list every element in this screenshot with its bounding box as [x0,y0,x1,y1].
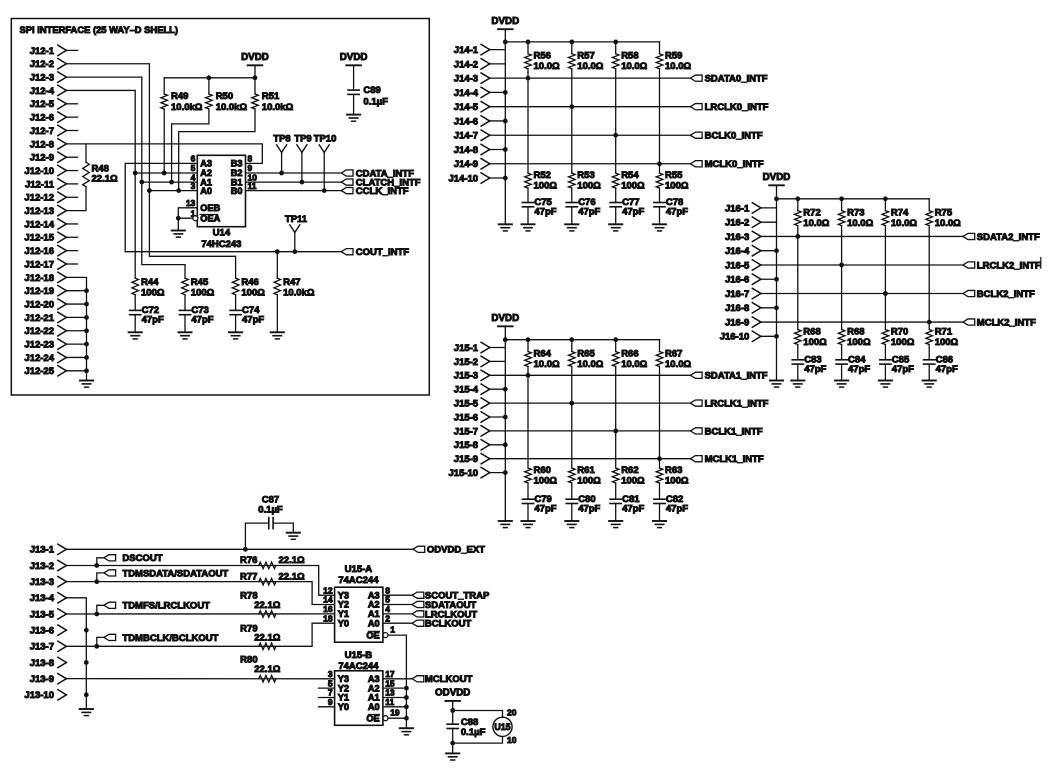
svg-text:R70: R70 [891,326,908,337]
wire signal row SDATA1_INTF [490,374,691,376]
resistor R63 100 ohm [659,459,661,468]
junction J15-4 [503,387,508,392]
junction J13-10 bus [84,692,89,697]
svg-text:DVDD: DVDD [763,172,791,183]
svg-text:U15: U15 [494,722,510,732]
svg-text:DVDD: DVDD [241,52,269,63]
junction rail R58 [613,40,618,45]
svg-text:J13-6: J13-6 [30,626,54,637]
junction R66 signal [613,429,618,434]
svg-text:MCLK0_INTF: MCLK0_INTF [705,159,764,170]
wire signal row MCLK0_INTF [490,163,691,165]
wire U15-A output BCLKOUT [383,622,412,624]
svg-text:J13-3: J13-3 [30,577,54,588]
wire ODVDD rail to U15 pin 20 [453,711,503,718]
flag SDATA1_INTF [690,372,702,378]
svg-text:DVDD: DVDD [340,52,368,63]
capacitor C86 47pF [924,359,935,361]
svg-text:J16-10: J16-10 [720,332,750,343]
svg-text:J14-2: J14-2 [454,59,478,70]
svg-text:1: 1 [390,625,395,635]
resistor R51 10.0k [254,78,256,94]
junction A0 R51 [176,188,181,193]
wire J15-6 stub [490,416,506,418]
svg-text:J16-8: J16-8 [725,303,749,314]
svg-text:47pF: 47pF [534,503,556,514]
junction rail R57 [569,40,574,45]
svg-text:TDMBCLK/BCLKOUT: TDMBCLK/BCLKOUT [122,633,218,644]
junction rail R72 [795,196,800,201]
svg-text:SDATA2_INTF: SDATA2_INTF [977,232,1040,243]
wire J12-4 to A2 and R44 [66,90,135,278]
svg-text:R76: R76 [240,555,257,566]
wire OE-A to U15-B enables [388,635,406,728]
resistor R54 100 ohm [615,135,617,173]
wire U15-B Y2 stub [319,687,335,689]
svg-text:J13-9: J13-9 [30,674,54,685]
wire J12-13 to R48 [66,187,86,211]
resistor R73 10.0 ohm [841,199,843,211]
svg-text:DVDD: DVDD [491,16,519,27]
svg-text:R77: R77 [240,571,257,582]
wire U15 pin 10 to ground rail [453,736,503,743]
svg-text:J13-2: J13-2 [30,561,54,572]
junction J16-6 [774,277,779,282]
resistor R70 100 ohm [884,294,886,330]
resistor R50 10.0k [208,78,210,94]
svg-text:COUT_INTF: COUT_INTF [356,247,410,258]
wire DVDD rail J15 [505,339,659,341]
junction enable bus [404,686,409,691]
svg-text:74AC244: 74AC244 [338,575,379,586]
junction R58 signal [613,133,618,138]
junction J12-25 bus [84,368,89,373]
junction R64 signal [526,373,531,378]
ground C72 [129,331,142,333]
svg-text:J13-8: J13-8 [30,658,54,669]
wire J16-6 stub [761,278,777,280]
svg-text:10.0kΩ: 10.0kΩ [262,102,294,113]
svg-text:A0: A0 [200,186,212,196]
junction J13-6 bus [84,628,89,633]
svg-text:J12-9: J12-9 [30,153,54,164]
svg-text:22.1Ω: 22.1Ω [279,571,305,582]
wire B1 row CLATCH [246,181,342,183]
svg-text:47pF: 47pF [242,315,264,326]
junction rail bus [503,337,508,342]
resistor R76 22.1 ohm [259,562,276,569]
svg-text:47pF: 47pF [848,364,870,375]
svg-text:R58: R58 [621,51,638,62]
svg-text:J13-10: J13-10 [24,690,54,701]
wire J13-3 row TDMSDATA to U15-A Y2 [66,582,334,605]
junction R56 signal [526,76,531,81]
ground C73 [178,331,191,333]
capacitor C82 47pF [654,498,665,500]
svg-text:100Ω: 100Ω [534,181,558,192]
svg-text:100Ω: 100Ω [241,287,265,298]
svg-text:J13-4: J13-4 [30,593,55,604]
wire U14 A0 row [149,190,198,192]
svg-text:J12-10: J12-10 [24,166,54,177]
flag ODVDD_EXT [413,546,425,552]
wire J12-3 to A1 and R45 [66,77,185,278]
wire J13 ground bus [66,598,86,709]
resistor R53 100 ohm [571,107,573,173]
svg-text:J16-4: J16-4 [725,246,750,257]
svg-text:J12-8: J12-8 [30,139,54,150]
SPI interface enclosure box [11,19,429,396]
svg-text:DVDD: DVDD [491,313,519,324]
svg-text:100Ω: 100Ω [621,181,645,192]
resistor R80 22.1 ohm [259,675,276,682]
svg-text:J12-22: J12-22 [24,326,54,337]
svg-text:47pF: 47pF [804,364,826,375]
resistor R64 10.0 ohm [527,340,529,352]
junction enable bus [404,704,409,709]
svg-text:R62: R62 [621,465,638,476]
svg-text:J12-2: J12-2 [30,59,54,70]
svg-text:J12-17: J12-17 [24,259,54,270]
svg-text:A3: A3 [200,159,212,169]
resistor R72 10.0 ohm [797,199,799,211]
resistor R60 100 ohm [527,375,529,468]
wire J13-5 row TDMFS to U15-A Y1 [66,613,334,615]
svg-text:10.0Ω: 10.0Ω [577,359,603,370]
capacitor C81 47pF [610,498,621,500]
junction rail R66 [613,337,618,342]
svg-text:BCLK0_INTF: BCLK0_INTF [705,131,763,142]
wire J14-8 stub [490,148,506,150]
ground C79 [521,520,534,522]
svg-text:100Ω: 100Ω [935,337,959,348]
buffer U15-A 74AC244 [335,587,383,642]
svg-text:C89: C89 [363,85,380,96]
svg-text:J14-10: J14-10 [449,173,479,184]
wire U15-B Y0 stub [319,706,335,708]
svg-text:BCLK2_INTF: BCLK2_INTF [977,289,1035,300]
text cursor artifact after LRCLK2_INTF [1040,258,1042,269]
wire J15-8 stub [490,444,506,446]
svg-text:Y0: Y0 [338,618,349,628]
junction rail R51 [253,75,258,80]
svg-text:22.1Ω: 22.1Ω [92,174,118,185]
svg-text:J12-24: J12-24 [24,353,54,364]
resistor R66 10.0 ohm [615,340,617,352]
junction J14-8 [503,147,508,152]
wire U15-B Y1 stub [319,697,335,699]
svg-text:2: 2 [385,613,390,623]
svg-text:10.0kΩ: 10.0kΩ [283,287,315,298]
svg-text:J14-7: J14-7 [454,131,478,142]
svg-text:10.0Ω: 10.0Ω [803,218,829,229]
svg-text:BCLK1_INTF: BCLK1_INTF [705,426,763,437]
wire U14 A3 to COUT net [125,163,197,251]
bubble OE U15-B [383,716,388,721]
svg-text:100Ω: 100Ω [577,181,601,192]
junction A2 J12-4 [133,171,138,176]
junction OEA [176,216,181,221]
junction J15-8 [503,442,508,447]
junction ODVDD C88 [450,708,455,713]
wire J14 bus [490,42,506,50]
svg-text:J14-5: J14-5 [454,102,479,113]
svg-text:J12-4: J12-4 [30,86,55,97]
flag CLATCH_INTF [341,179,353,185]
svg-text:100Ω: 100Ω [891,337,915,348]
svg-text:R49: R49 [171,91,188,102]
resistor R68 100 ohm [797,236,799,329]
svg-text:R53: R53 [577,170,594,181]
ground C88 [446,752,459,754]
junction R75 signal [927,320,932,325]
resistor R44 100Ω [132,278,139,295]
capacitor C85 47pF [880,359,891,361]
flag MCLK0_INTF [690,161,702,167]
svg-text:47pF: 47pF [666,503,688,514]
svg-text:0.1µF: 0.1µF [461,727,486,738]
resistor R49 10.0k [163,78,165,94]
flag MCLK2_INTF [963,319,975,325]
svg-text:R61: R61 [577,465,595,476]
svg-text:U14: U14 [213,228,231,239]
resistor R45 100Ω [182,278,189,295]
svg-text:18: 18 [323,613,333,623]
svg-text:47pF: 47pF [622,503,644,514]
junction rail bus [503,40,508,45]
svg-text:10: 10 [507,735,517,745]
svg-text:TP8: TP8 [273,134,290,145]
svg-text:9: 9 [328,697,333,707]
svg-text:J12-1: J12-1 [30,46,55,57]
ground C89 [347,114,360,116]
resistor R75 10.0 ohm [928,199,930,211]
flag CDATA_INTF [341,170,353,176]
svg-text:J16-9: J16-9 [725,317,749,328]
svg-text:J12-16: J12-16 [24,246,54,257]
junction rail R56 [526,40,531,45]
svg-text:J12-14: J12-14 [24,219,54,230]
svg-text:J12-25: J12-25 [24,366,54,377]
svg-text:J12-18: J12-18 [24,273,54,284]
junction R74 signal [883,291,888,296]
junction J13-1 C87 [243,547,248,552]
capacitor C80 47pF [566,498,577,500]
svg-text:SPI INTERFACE (25 WAY–D SHELL): SPI INTERFACE (25 WAY–D SHELL) [20,24,179,35]
wire U15-B A stub [383,697,407,699]
wire signal row BCLK1_INTF [490,430,691,432]
junction R65 signal [569,401,574,406]
svg-text:20: 20 [507,708,517,718]
svg-text:10.0Ω: 10.0Ω [891,218,917,229]
wire signal row MCLK1_INTF [490,458,691,460]
junction rail bus [774,196,779,201]
svg-text:10.0kΩ: 10.0kΩ [171,102,203,113]
flag BCLK0_INTF [690,132,702,138]
svg-text:J15-8: J15-8 [454,440,478,451]
svg-text:TP10: TP10 [314,134,337,145]
svg-text:U15-B: U15-B [345,650,373,661]
svg-text:J12-6: J12-6 [30,113,54,124]
wire U14 A2 row [134,172,197,174]
resistor R47 10.0k [276,252,278,278]
junction J13-8 bus [84,660,89,665]
flag LRCLK2_INTF [963,262,975,268]
junction J16-4 [774,248,779,253]
flag DSCOUT [94,563,99,568]
junction rail R64 [526,337,531,342]
svg-text:100Ω: 100Ω [191,287,215,298]
wire COUT row [125,251,341,253]
capacitor C78 47pF [654,202,665,204]
svg-text:R60: R60 [534,465,551,476]
svg-text:J14-1: J14-1 [454,45,479,56]
ground C85 [879,380,892,382]
resistor R46 100Ω [232,278,239,295]
svg-text:22.1Ω: 22.1Ω [279,555,305,566]
capacitor C76 47pF [566,202,577,204]
resistor R77 22.1 ohm [259,578,276,585]
flag SDATA0_INTF [690,75,702,81]
svg-text:R56: R56 [534,51,551,62]
svg-text:100Ω: 100Ω [577,475,601,486]
svg-text:CCLK_INTF: CCLK_INTF [356,186,409,197]
wire signal row SDATA2_INTF [761,235,963,237]
junction rail R74 [883,196,888,201]
svg-text:47pF: 47pF [142,315,164,326]
svg-text:J13-5: J13-5 [30,609,55,620]
svg-text:19: 19 [390,708,400,718]
junction A0 J12-2 [147,188,152,193]
bubble OEA pin 1 [193,216,198,221]
capacitor C79 47pF [522,498,533,500]
ground J13 bus [80,708,93,710]
svg-text:J14-3: J14-3 [454,74,478,85]
svg-text:J12-19: J12-19 [24,286,54,297]
svg-text:OEB: OEB [200,203,220,213]
svg-text:J12-23: J12-23 [24,340,54,351]
junction R67 signal [657,456,662,461]
ground J14 bus [499,223,512,225]
svg-text:22.1Ω: 22.1Ω [254,600,280,611]
svg-text:R65: R65 [577,348,595,359]
flag MCLK1_INTF [690,456,702,462]
wire OE-B stub [388,717,406,719]
flag SDATA2_INTF [963,233,975,239]
svg-text:MCLKOUT: MCLKOUT [425,674,473,685]
svg-text:R75: R75 [935,208,953,219]
capacitor C87 0.1uF [245,523,268,549]
ground C81 [609,520,622,522]
junction J12-24 bus [84,355,89,360]
svg-text:47pF: 47pF [191,315,213,326]
svg-text:100Ω: 100Ω [534,475,558,486]
svg-text:R52: R52 [534,170,551,181]
wire signal row BCLK0_INTF [490,134,691,136]
wire J16-2 stub [761,221,777,223]
resistor R71 100 ohm [928,322,930,329]
flag SDATAOUT [412,601,424,607]
flag LRCLKOUT [412,611,424,617]
junction COUT R47 [275,249,280,254]
svg-text:R72: R72 [803,208,820,219]
flag BCLK1_INTF [690,428,702,434]
ground C80 [565,520,578,522]
ground enable bus [400,727,413,729]
wire U15-A output SDATAOUT [383,604,412,606]
svg-text:R74: R74 [891,208,909,219]
svg-text:J16-7: J16-7 [725,289,749,300]
svg-text:TDMFS/LRCLKOUT: TDMFS/LRCLKOUT [122,601,210,612]
svg-text:J12-21: J12-21 [24,313,54,324]
svg-text:A0: A0 [368,618,380,628]
wire U14 OEB OEA to ground [178,208,197,231]
svg-text:J12-20: J12-20 [24,299,54,310]
flag TDMFS/LRCLKOUT [94,612,99,617]
svg-text:TP11: TP11 [285,214,308,225]
junction COUT TP11 [292,249,297,254]
wire U15-B A stub [383,687,407,689]
resistor R61 100 ohm [571,403,573,468]
svg-text:10.0Ω: 10.0Ω [577,61,603,72]
svg-text:R55: R55 [665,170,683,181]
wire U15-B A stub [383,706,407,708]
svg-text:LRCLK1_INTF: LRCLK1_INTF [705,399,769,410]
svg-text:J12-11: J12-11 [25,179,55,190]
bubble OE U15-A [383,633,388,638]
resistor R78 22.1 ohm [259,611,276,618]
svg-text:10.0Ω: 10.0Ω [665,359,691,370]
wire U15-A output LRCLKOUT [383,613,412,615]
junction J12-21 bus [84,315,89,320]
wire J15-2 stub [490,360,506,362]
wire J16 bus [761,199,777,208]
svg-text:74AC244: 74AC244 [338,661,379,672]
wire J15 bus [490,340,506,348]
svg-text:J12-5: J12-5 [30,99,55,110]
ground J12 bus [80,380,93,382]
svg-text:47pF: 47pF [666,207,688,218]
op-amp U14 74HC243 buffer [197,155,245,226]
svg-text:47pF: 47pF [622,207,644,218]
svg-text:TP9: TP9 [294,134,311,145]
svg-text:ODVDD_EXT: ODVDD_EXT [427,545,485,556]
resistor R68 100 ohm [841,265,843,330]
svg-text:J15-4: J15-4 [454,385,479,396]
svg-text:R66: R66 [621,348,638,359]
wire J16-4 stub [761,250,777,252]
svg-text:11: 11 [385,697,394,707]
junction J14-10 [503,176,508,181]
wire J12-8 to U14 pin 8 B3 [66,144,262,164]
svg-text:R50: R50 [216,91,233,102]
flag SCOUT_TRAP [412,592,424,598]
wire DVDD rail J16 [777,198,930,200]
svg-text:J14-4: J14-4 [454,88,479,99]
junction J12-23 bus [84,342,89,347]
wire signal row SDATA0_INTF [490,77,691,79]
svg-text:47pF: 47pF [578,207,600,218]
svg-text:J15-10: J15-10 [449,468,479,479]
ground C74 [229,331,242,333]
junction J14-6 [503,119,508,124]
junction rail R50 [207,75,212,80]
svg-text:J13-1: J13-1 [30,545,55,556]
capacitor C72 47pF [130,309,141,311]
wire signal row LRCLK0_INTF [490,106,691,108]
ground C87 [287,532,300,534]
svg-text:J16-6: J16-6 [725,275,749,286]
